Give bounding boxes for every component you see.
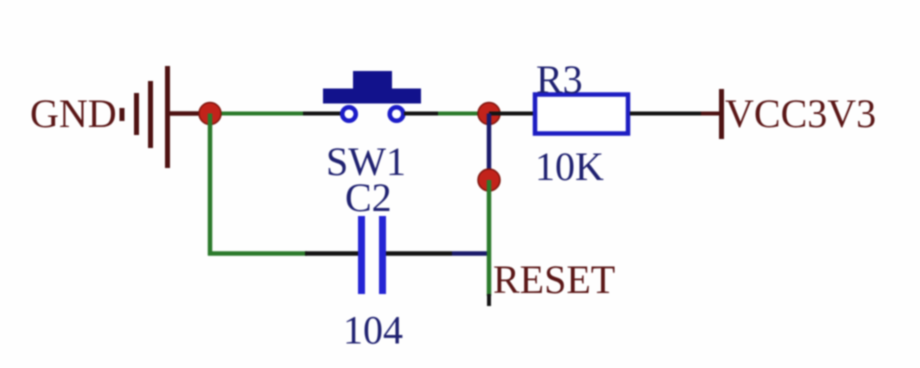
wire J2 to resistor (black) bbox=[489, 112, 534, 116]
svg-text:104: 104 bbox=[343, 308, 403, 353]
svg-text:C2: C2 bbox=[345, 175, 392, 220]
node junction J3 bbox=[478, 169, 500, 191]
ground bbox=[122, 66, 168, 168]
svg-text:VCC3V3: VCC3V3 bbox=[725, 91, 876, 136]
wire J1 to switch (green) bbox=[210, 112, 305, 116]
wire capacitor to RESET net (navy) bbox=[452, 251, 489, 256]
resistor R3 bbox=[535, 95, 628, 134]
power VCC3V3 bar bbox=[719, 89, 724, 139]
wire into capacitor left (black) bbox=[305, 251, 358, 256]
svg-text:RESET: RESET bbox=[493, 257, 615, 302]
wire bottom horizontal (green) bbox=[208, 251, 307, 256]
wire into switch left pin (black) bbox=[303, 112, 341, 116]
wire resistor to VCC (black) bbox=[630, 112, 701, 116]
wire J3 down (green vertical) bbox=[487, 180, 492, 296]
pushbutton SW1 bbox=[323, 71, 421, 121]
node junction J1 bbox=[199, 103, 221, 125]
wire to J2 (green) bbox=[438, 112, 489, 116]
node junction J2 bbox=[478, 103, 500, 125]
svg-text:R3: R3 bbox=[536, 57, 583, 102]
wire maroon segment at VCC bbox=[701, 112, 721, 116]
wire J2 down to J3 (navy vertical) bbox=[487, 114, 492, 181]
wire J1 down (green vertical) bbox=[208, 114, 213, 256]
wire switch right pin (black) bbox=[404, 112, 438, 116]
wire capacitor right (black) bbox=[386, 251, 452, 256]
wire ground to J1 (maroon) bbox=[167, 111, 210, 116]
svg-text:10K: 10K bbox=[535, 144, 604, 189]
capacitor C2 bbox=[362, 216, 383, 294]
wire net stub (black tick) bbox=[487, 294, 491, 306]
svg-text:GND: GND bbox=[30, 91, 117, 136]
